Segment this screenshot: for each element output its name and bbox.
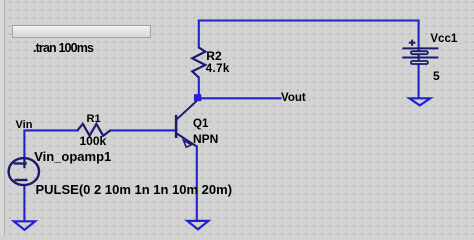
left window edge [0,0,4,236]
resistor R1 body [78,124,111,136]
source Vin_opamp1 name label [34,150,111,163]
voltage source Vin_opamp1 body [9,158,39,185]
ground (emitter) [187,221,208,230]
wire emitter to ground [196,146,198,220]
resistor R1 value 100k [80,135,107,147]
node label Vout [281,93,306,105]
battery Vcc1 body [402,40,438,65]
emitter arrow [183,140,191,147]
wire Vout from collector junction [199,97,281,99]
wire top rail from R2 top to Vcc1 [199,21,419,48]
wire battery to ground [418,65,420,98]
wire Vin to R1 [24,130,77,158]
junction node at collector [194,94,201,101]
wire R2 bottom to junction [198,78,200,99]
source Vcc1 value 5 [433,70,440,82]
source Vin_opamp1 value PULSE [36,183,233,196]
transistor Q1 value NPN [193,133,218,145]
resistor R2 value 4.7k [206,64,230,76]
resistor R2 body [192,48,205,78]
wire R1 to base [111,129,177,131]
ground (source) [14,221,35,230]
wire source to ground [23,185,25,220]
ground (battery) [409,98,430,105]
transistor Q1 body [176,101,197,147]
resistor R1 name label [87,114,101,125]
node label Vin [16,120,33,131]
transistor Q1 name label [193,119,208,131]
directive edit box [12,25,151,38]
source Vcc1 name label [430,34,457,46]
spice directive .tran 100ms [33,42,93,55]
resistor R2 name label [206,50,221,62]
